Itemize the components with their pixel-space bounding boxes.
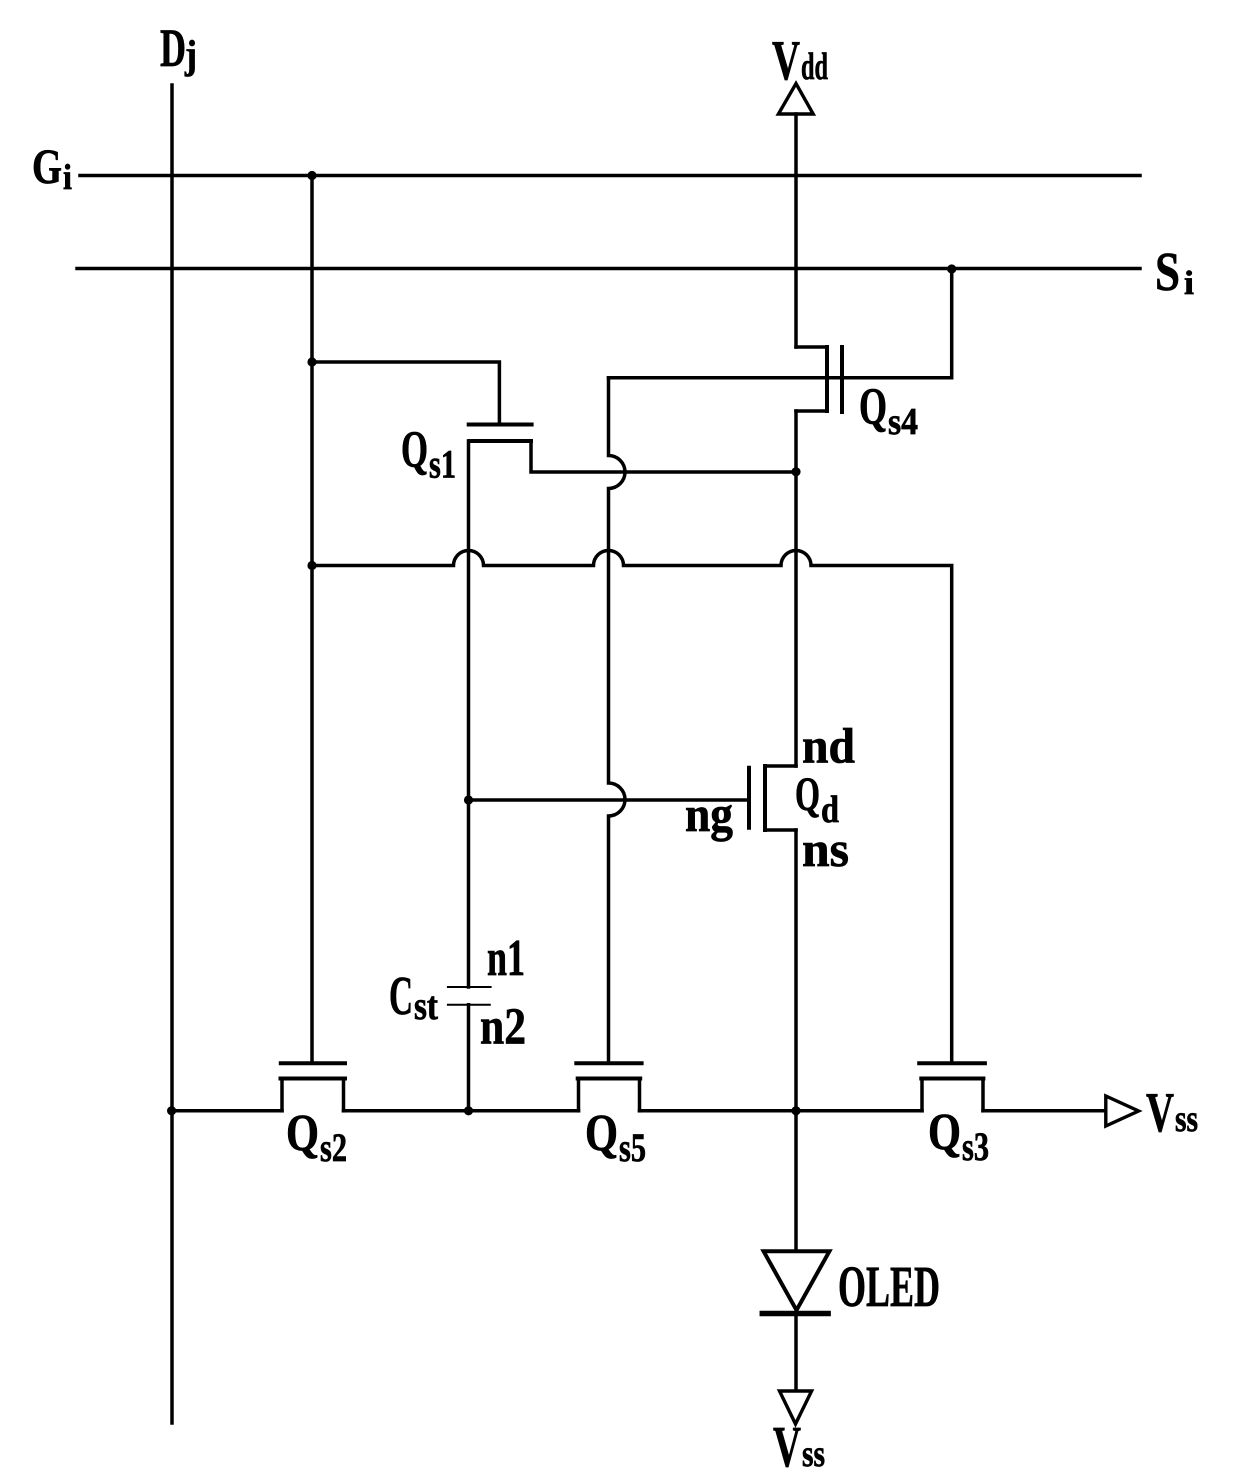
wire Vdd vertical Qs4 to Qd bbox=[794, 411, 798, 766]
transistor Qs5 gate bar bbox=[576, 1061, 641, 1065]
wire Qd source down to OLED bbox=[794, 830, 798, 1251]
svg-text:Q: Q bbox=[859, 379, 887, 436]
svg-text:V: V bbox=[772, 30, 800, 92]
diode OLED cathode bar bbox=[762, 1311, 828, 1317]
transistor Qs5 source drop bbox=[577, 1079, 581, 1111]
junction dot on Si bbox=[947, 264, 956, 273]
svg-text:OLED: OLED bbox=[838, 1254, 940, 1319]
transistor Qs4 channel bar bbox=[825, 347, 829, 411]
junction dot node A bbox=[791, 467, 800, 476]
power Vdd arrow symbol bbox=[778, 84, 813, 115]
junction dot OLED rail bbox=[791, 1106, 800, 1115]
wire vertical x608 with hops bbox=[609, 378, 626, 1063]
svg-text:Q: Q bbox=[286, 1105, 319, 1162]
capacitor Cst label bbox=[389, 965, 439, 1028]
svg-text:ss: ss bbox=[1175, 1098, 1198, 1140]
wire sense line Si horizontal bbox=[77, 267, 1140, 271]
transistor Qs1 channel bar bbox=[470, 439, 532, 443]
power Vss bottom arrow symbol bbox=[780, 1391, 812, 1424]
transistor Qs4 drain step bbox=[796, 345, 827, 349]
wire bottom rail segment 4 bbox=[983, 1109, 1105, 1113]
transistor Qd source step bbox=[765, 828, 796, 832]
transistor Qs4 source step bbox=[796, 409, 827, 413]
wire bottom rail segment 2 bbox=[344, 1109, 579, 1113]
wire OLED cathode to Vss arrow bbox=[794, 1314, 798, 1392]
junction dot long wire at x312 bbox=[307, 561, 316, 570]
node Vdd label bbox=[772, 30, 828, 92]
transistor Qs4 label bbox=[859, 379, 918, 444]
wire vertical x312 from Gi to Qs2 gate bbox=[310, 176, 314, 1064]
node ng label bbox=[685, 786, 733, 842]
transistor Qs5 label bbox=[585, 1105, 646, 1170]
transistor Qs3 channel bar bbox=[921, 1077, 983, 1081]
transistor Qs3 label bbox=[928, 1104, 989, 1169]
node Si label bbox=[1155, 241, 1194, 302]
svg-text:V: V bbox=[1146, 1082, 1174, 1144]
node Gi label bbox=[32, 138, 72, 197]
wire Qs4 gate to Si bbox=[609, 269, 952, 378]
svg-text:n2: n2 bbox=[480, 999, 526, 1056]
transistor Qs4 gate bar bbox=[840, 347, 844, 412]
transistor Qs2 source drop bbox=[280, 1079, 284, 1111]
capacitor Cst top plate bbox=[448, 986, 491, 988]
node ns label bbox=[802, 821, 849, 877]
wire bottom rail segment 3 bbox=[640, 1109, 923, 1113]
svg-text:nd: nd bbox=[802, 718, 855, 774]
node Vss bottom label bbox=[773, 1414, 825, 1479]
transistor Qs2 gate bar bbox=[281, 1061, 345, 1065]
svg-text:s2: s2 bbox=[320, 1125, 347, 1170]
svg-text:i: i bbox=[63, 157, 72, 197]
junction dot on Gi at x312 bbox=[307, 171, 316, 180]
svg-text:S: S bbox=[1155, 241, 1180, 302]
transistor Qs1 label bbox=[401, 422, 456, 487]
svg-text:Q: Q bbox=[795, 768, 820, 821]
wire Vdd vertical from arrow to Qs4 bbox=[794, 114, 798, 347]
transistor Qs2 label bbox=[286, 1105, 347, 1170]
transistor Qs3 drain drop bbox=[981, 1079, 985, 1111]
svg-text:Q: Q bbox=[928, 1104, 961, 1161]
svg-text:ss: ss bbox=[802, 1433, 825, 1475]
wire data line Dj vertical bbox=[170, 85, 174, 1423]
svg-text:s5: s5 bbox=[619, 1125, 646, 1170]
transistor Qs2 channel bar bbox=[281, 1077, 346, 1081]
transistor Qd drain step bbox=[765, 764, 796, 768]
junction dot capacitor rail bbox=[464, 1106, 473, 1115]
svg-text:C: C bbox=[389, 965, 413, 1026]
node nd label bbox=[802, 718, 855, 774]
transistor Qs3 gate bar bbox=[919, 1061, 985, 1065]
capacitor Cst bottom plate bbox=[448, 1004, 490, 1006]
transistor Qd label bbox=[795, 768, 839, 831]
transistor Qd gate bar bbox=[747, 768, 751, 828]
node n1 label bbox=[487, 930, 525, 987]
transistor Qs2 drain drop bbox=[342, 1079, 346, 1111]
svg-text:Q: Q bbox=[585, 1105, 618, 1162]
wire Qs1 source down to capacitor bbox=[467, 441, 471, 987]
svg-text:j: j bbox=[184, 32, 197, 77]
wire bottom rail segment 1 bbox=[172, 1109, 282, 1113]
transistor Qs1 gate bar bbox=[469, 423, 532, 427]
wire long horizontal with hops bbox=[312, 551, 952, 1064]
transistor Qs5 channel bar bbox=[578, 1077, 641, 1081]
wire capacitor bottom to ground rail bbox=[467, 1005, 471, 1111]
svg-text:ns: ns bbox=[802, 821, 849, 877]
junction dot Qs1 gate tee bbox=[307, 357, 316, 366]
wire Qs1 gate feed bbox=[312, 362, 499, 423]
svg-text:dd: dd bbox=[801, 46, 828, 88]
svg-text:n1: n1 bbox=[487, 930, 525, 987]
svg-text:ng: ng bbox=[685, 786, 733, 842]
node Vss right label bbox=[1146, 1082, 1198, 1144]
transistor Qs5 drain drop bbox=[638, 1079, 642, 1111]
wire Qd gate horizontal bbox=[469, 798, 748, 802]
junction dot Qd gate tee bbox=[464, 795, 473, 804]
svg-text:s4: s4 bbox=[888, 401, 918, 443]
power Vss right arrow symbol bbox=[1106, 1096, 1139, 1126]
svg-text:s3: s3 bbox=[962, 1124, 989, 1169]
junction dot Dj bottom rail bbox=[167, 1106, 176, 1115]
svg-text:G: G bbox=[32, 138, 62, 194]
transistor Qd channel bar bbox=[763, 766, 767, 830]
svg-text:st: st bbox=[414, 983, 439, 1028]
node Dj label bbox=[160, 18, 197, 78]
svg-text:s1: s1 bbox=[429, 442, 456, 487]
node n2 label bbox=[480, 999, 526, 1056]
transistor Qs3 source drop bbox=[920, 1079, 924, 1111]
svg-text:Q: Q bbox=[401, 422, 428, 479]
svg-text:V: V bbox=[773, 1414, 801, 1479]
wire gate line Gi horizontal bbox=[80, 174, 1140, 178]
wire Qs1 drain to node A bbox=[531, 441, 796, 472]
svg-text:D: D bbox=[160, 18, 186, 78]
svg-text:i: i bbox=[1184, 265, 1194, 302]
diode OLED anode triangle bbox=[764, 1251, 830, 1310]
node OLED label bbox=[838, 1254, 940, 1319]
